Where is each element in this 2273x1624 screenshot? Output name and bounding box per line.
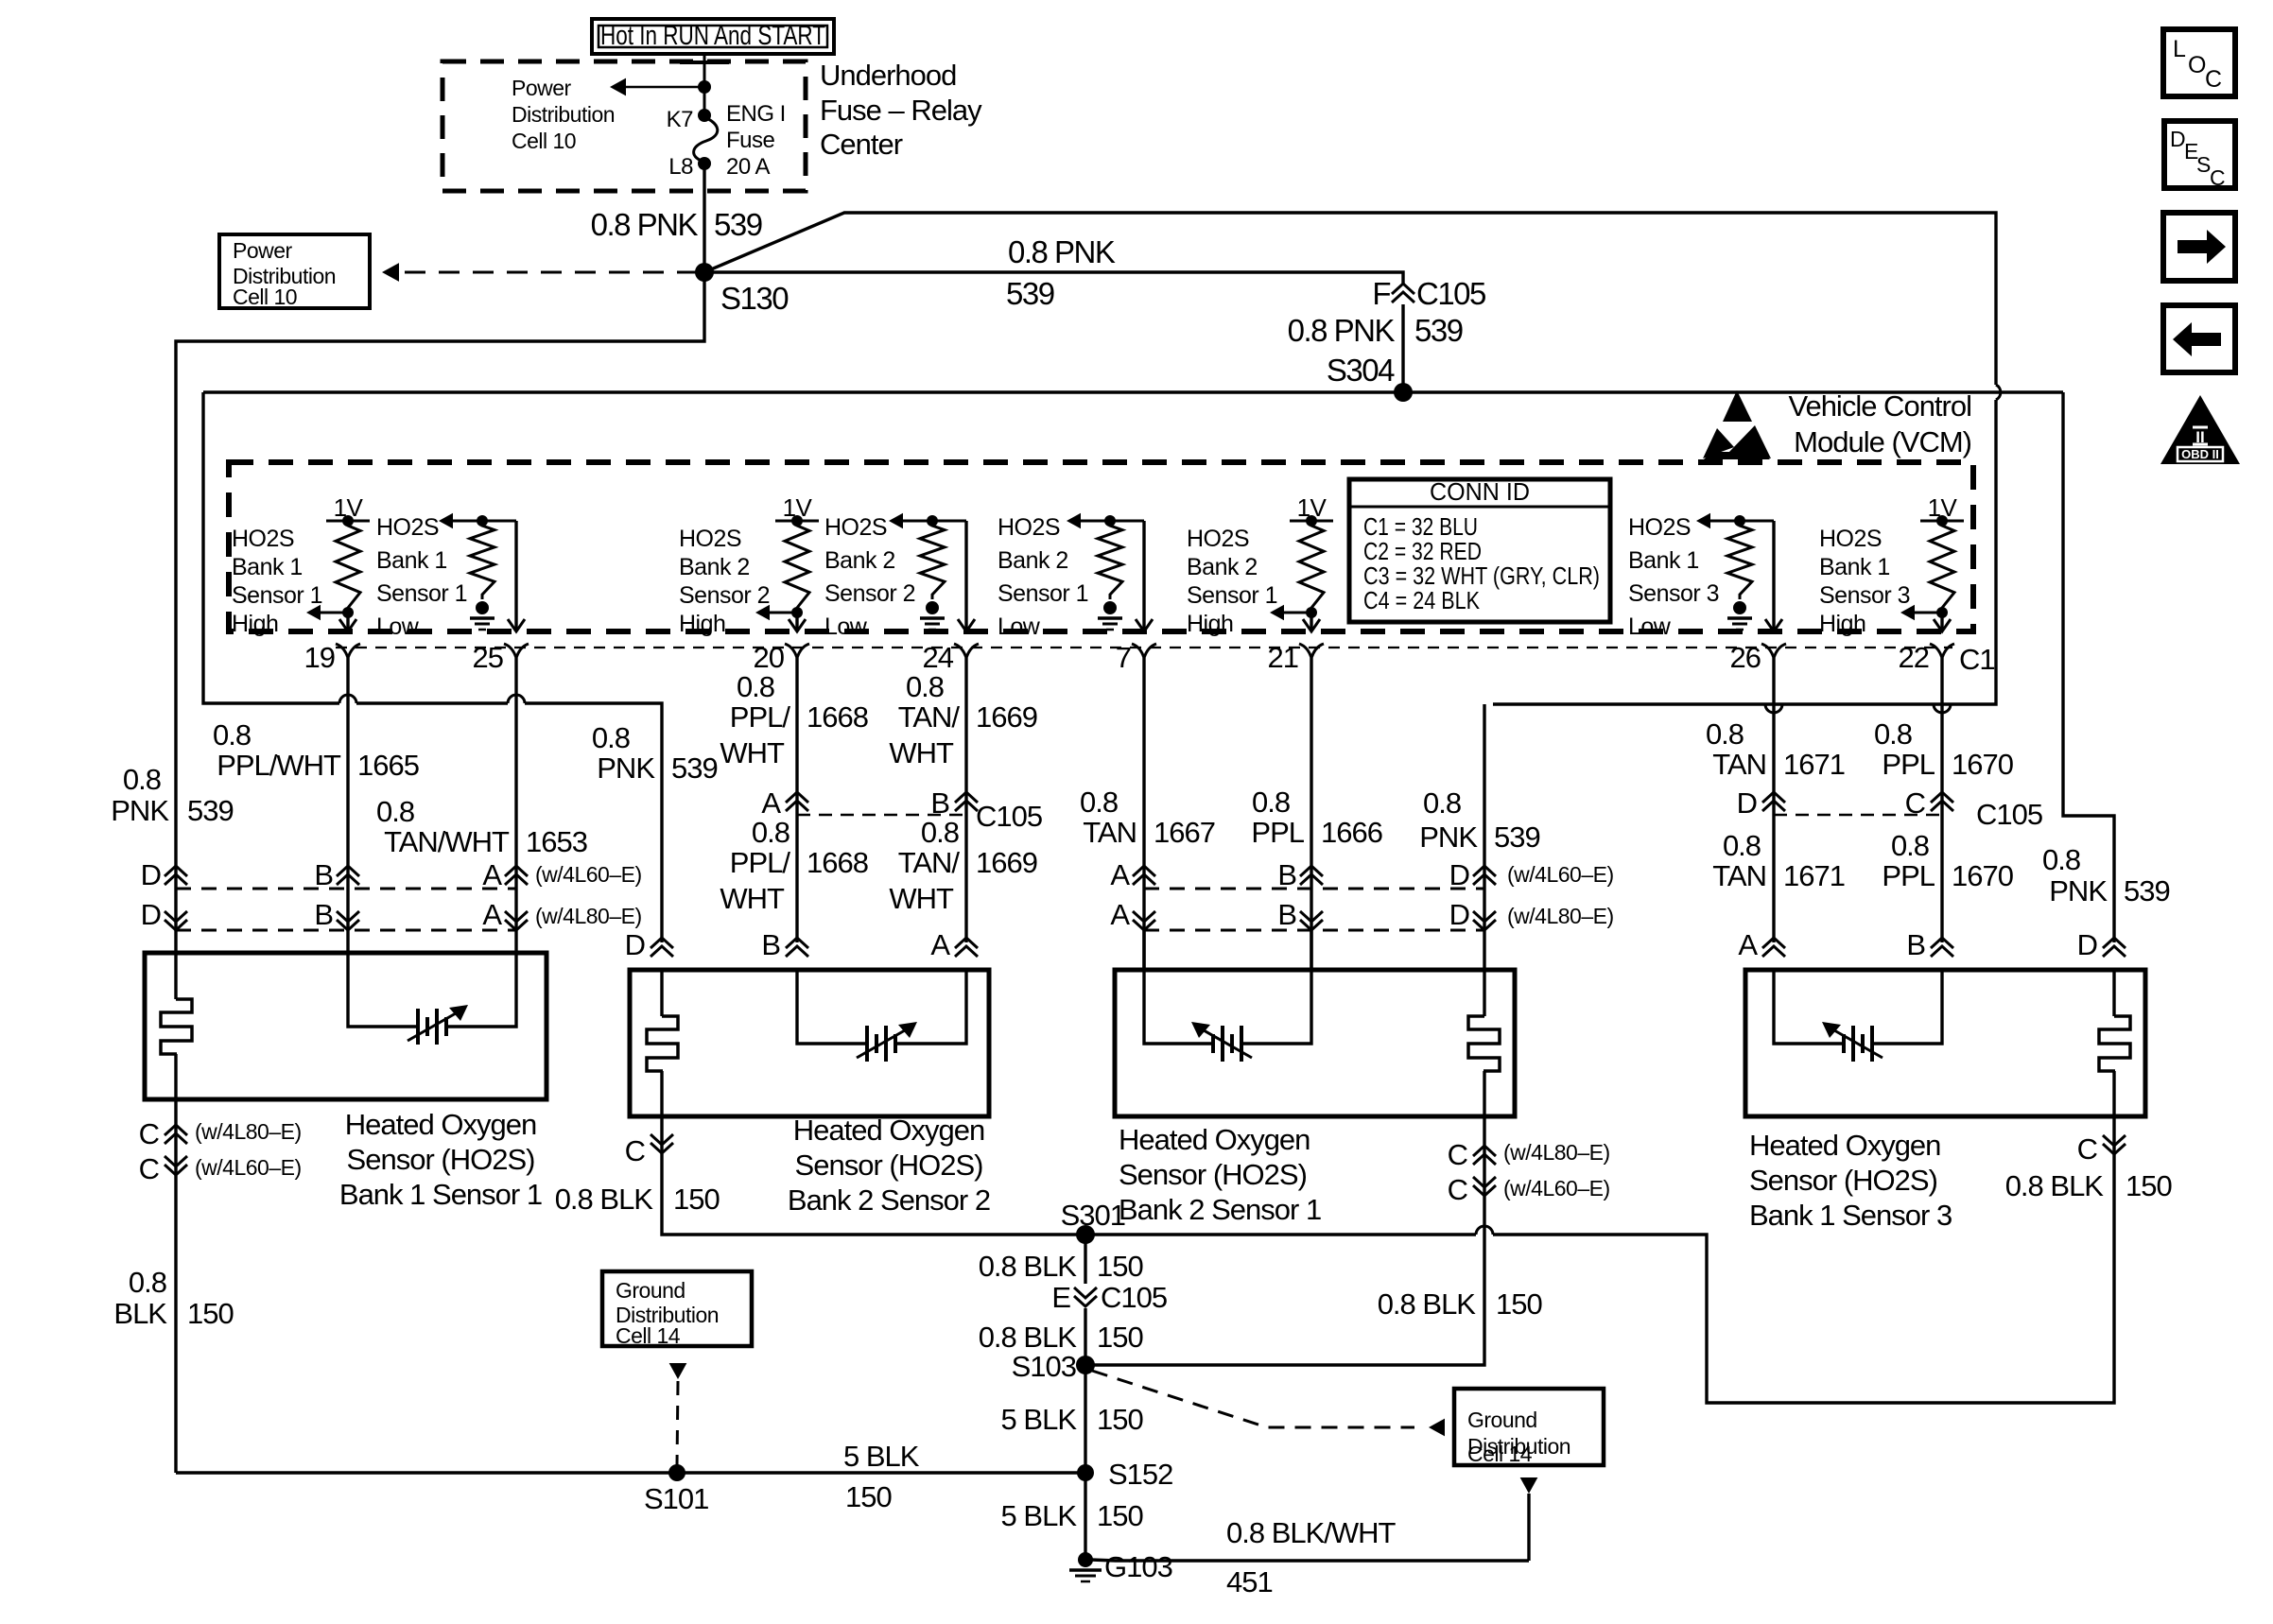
wire: pin7 to HO2S bank2 sensor1 A (0.8 TAN 1667) bbox=[1142, 658, 1145, 970]
node S152 bbox=[1077, 1464, 1094, 1481]
node S101 bbox=[668, 1464, 685, 1481]
svg-text:Bank 1: Bank 1 bbox=[1628, 547, 1699, 574]
heated oxygen sensor HO2S bank2 sensor2 bbox=[630, 970, 989, 1116]
svg-text:Bank 2: Bank 2 bbox=[679, 554, 750, 580]
svg-text:PPL: PPL bbox=[1251, 816, 1304, 849]
svg-text:B: B bbox=[1906, 928, 1925, 961]
node S130 bbox=[695, 263, 714, 282]
connector chevrons at HO2S bank1 sensor3 box bbox=[1762, 938, 1785, 957]
svg-text:C: C bbox=[2205, 66, 2222, 93]
svg-text:Bank 1: Bank 1 bbox=[232, 554, 303, 580]
inline connector row w/4L80-E (bank2 sensor1) bbox=[1144, 929, 1484, 932]
svg-text:150: 150 bbox=[1097, 1321, 1143, 1354]
svg-text:Heated Oxygen: Heated Oxygen bbox=[1749, 1129, 1940, 1162]
svg-text:150: 150 bbox=[1496, 1287, 1542, 1321]
svg-text:PPL/WHT: PPL/WHT bbox=[217, 749, 341, 782]
svg-text:TAN: TAN bbox=[1083, 816, 1136, 849]
svg-text:Heated Oxygen: Heated Oxygen bbox=[1119, 1123, 1310, 1156]
wire: bank1 sensor1 C to S101 (0.8 BLK 150) bbox=[176, 1471, 1085, 1474]
ground distribution cell 14 box (right) bbox=[1454, 1389, 1604, 1465]
svg-text:B: B bbox=[1277, 858, 1296, 891]
svg-text:150: 150 bbox=[187, 1297, 234, 1330]
svg-text:High: High bbox=[1819, 611, 1865, 637]
svg-text:0.8: 0.8 bbox=[1423, 786, 1461, 820]
svg-text:CONN ID: CONN ID bbox=[1430, 477, 1530, 506]
svg-text:A: A bbox=[1738, 928, 1758, 961]
svg-text:150: 150 bbox=[2126, 1169, 2172, 1202]
wire: bus right arm down to HO2S bank1 sensor3 D (0.8 PNK 539) bbox=[2063, 392, 2114, 942]
dashed wire: S103 to ground distribution cell 14 bbox=[1092, 1371, 1414, 1427]
sidebar back arrow button bbox=[2163, 305, 2235, 372]
wire: S152 to G103 (5 BLK 150) bbox=[1084, 1473, 1086, 1560]
svg-text:Low: Low bbox=[1628, 613, 1672, 640]
svg-text:0.8: 0.8 bbox=[737, 670, 774, 703]
wire: S103 to S152 (5 BLK 150) bbox=[1084, 1365, 1086, 1473]
svg-text:1670: 1670 bbox=[1952, 859, 2014, 892]
svg-text:Distribution: Distribution bbox=[512, 102, 615, 127]
wire: bus left arm down to HO2S bank2 sensor2 D (0.8 PNK 539) bbox=[203, 392, 662, 942]
svg-text:0.8: 0.8 bbox=[1874, 717, 1912, 751]
svg-text:20 A: 20 A bbox=[726, 154, 771, 180]
svg-text:Underhood: Underhood bbox=[820, 59, 956, 92]
svg-text:S101: S101 bbox=[644, 1482, 708, 1515]
svg-text:WHT: WHT bbox=[720, 736, 785, 769]
svg-text:High: High bbox=[1187, 611, 1233, 637]
svg-text:(w/4L60–E): (w/4L60–E) bbox=[535, 862, 642, 887]
svg-text:1669: 1669 bbox=[976, 846, 1037, 879]
inline connector row w/4L60-E (bank1 sensor1) bbox=[176, 888, 516, 890]
svg-text:C: C bbox=[2210, 165, 2226, 190]
VCM pin 25: HO2S bank1 sensor1 low (resistor to ground) bbox=[452, 520, 516, 523]
svg-text:High: High bbox=[679, 611, 725, 637]
ground G103 bbox=[1078, 1552, 1093, 1567]
svg-text:Sensor 2: Sensor 2 bbox=[679, 582, 770, 609]
svg-text:539: 539 bbox=[2124, 874, 2170, 907]
svg-text:0.8: 0.8 bbox=[1252, 786, 1290, 819]
svg-text:S304: S304 bbox=[1327, 353, 1395, 388]
svg-text:1666: 1666 bbox=[1321, 816, 1382, 849]
svg-text:Fuse: Fuse bbox=[726, 128, 775, 153]
svg-text:0.8 BLK: 0.8 BLK bbox=[555, 1183, 654, 1216]
svg-text:20: 20 bbox=[754, 641, 785, 674]
svg-text:TAN: TAN bbox=[1712, 748, 1766, 781]
svg-text:A: A bbox=[930, 928, 950, 961]
svg-text:5 BLK: 5 BLK bbox=[843, 1440, 920, 1473]
wire: pin to HO2S bank1 sensor3 (0.8 TAN 1671) bbox=[1772, 658, 1775, 942]
svg-text:Bank 2 Sensor 2: Bank 2 Sensor 2 bbox=[788, 1183, 990, 1217]
VCM pin 7: HO2S bank2 sensor1 low (resistor to ground) bbox=[1080, 520, 1144, 523]
svg-text:(w/4L60–E): (w/4L60–E) bbox=[1507, 862, 1614, 887]
svg-text:5 BLK: 5 BLK bbox=[1001, 1499, 1078, 1532]
heated oxygen sensor HO2S bank1 sensor3 bbox=[1745, 970, 2145, 1116]
svg-text:Bank 2 Sensor 1: Bank 2 Sensor 1 bbox=[1119, 1193, 1321, 1226]
svg-text:0.8: 0.8 bbox=[1891, 829, 1929, 862]
svg-text:150: 150 bbox=[845, 1480, 892, 1513]
CONN ID table bbox=[1349, 479, 1610, 622]
svg-text:C: C bbox=[139, 1117, 160, 1150]
fuse K7/L8 ENG I Fuse 20 A bbox=[698, 109, 711, 122]
svg-text:E: E bbox=[1051, 1281, 1070, 1314]
svg-text:1671: 1671 bbox=[1783, 748, 1845, 781]
svg-text:1668: 1668 bbox=[807, 846, 868, 879]
VCM pin 26: HO2S bank1 sensor3 low (resistor to ground) bbox=[1709, 520, 1774, 523]
svg-text:Bank 1 Sensor 1: Bank 1 Sensor 1 bbox=[339, 1178, 542, 1211]
svg-text:HO2S: HO2S bbox=[998, 514, 1060, 541]
svg-text:0.8: 0.8 bbox=[1706, 717, 1744, 751]
svg-text:150: 150 bbox=[673, 1183, 720, 1216]
ground distribution cell 14 box (left) bbox=[602, 1271, 752, 1346]
svg-text:22: 22 bbox=[1899, 641, 1929, 674]
svg-text:WHT: WHT bbox=[889, 882, 954, 915]
svg-text:Sensor 1: Sensor 1 bbox=[998, 580, 1088, 607]
svg-text:HO2S: HO2S bbox=[232, 526, 294, 552]
svg-text:Low: Low bbox=[998, 613, 1041, 640]
svg-text:Fuse – Relay: Fuse – Relay bbox=[820, 94, 982, 127]
svg-text:O: O bbox=[2188, 52, 2206, 78]
svg-text:B: B bbox=[314, 898, 333, 931]
svg-text:PPL: PPL bbox=[1882, 859, 1935, 892]
wire: S304 power bus bbox=[203, 390, 2063, 393]
sidebar LOC button bbox=[2163, 29, 2235, 96]
svg-text:Low: Low bbox=[376, 613, 420, 640]
svg-text:C105: C105 bbox=[976, 800, 1042, 833]
svg-text:PNK: PNK bbox=[597, 752, 655, 785]
wire: hot feed into fuse bbox=[703, 54, 706, 115]
wire: S130 up-right to HO2S bank2 sensor1 feed (0.8 PNK 539) bbox=[704, 213, 1996, 704]
svg-text:F: F bbox=[1372, 276, 1390, 311]
svg-text:B: B bbox=[1277, 898, 1296, 931]
svg-text:Center: Center bbox=[820, 128, 903, 161]
svg-text:Sensor (HO2S): Sensor (HO2S) bbox=[1749, 1164, 1937, 1197]
dashed wire: S130 to power distribution cell 10 bbox=[405, 271, 700, 274]
svg-text:Bank 2: Bank 2 bbox=[998, 547, 1068, 574]
svg-text:19: 19 bbox=[304, 641, 335, 674]
svg-text:K7: K7 bbox=[667, 107, 694, 132]
wire: bank2 sensor2 C to ground bus (0.8 BLK 150) bbox=[662, 1116, 1085, 1235]
wire: bank2 sensor1 D row to box bbox=[1144, 704, 1484, 970]
node S103 bbox=[1076, 1356, 1095, 1374]
wire: G103 to ground distribution (0.8 BLK/WHT 451) bbox=[1091, 1560, 1529, 1561]
svg-text:Heated Oxygen: Heated Oxygen bbox=[793, 1114, 984, 1147]
svg-text:C105: C105 bbox=[1976, 798, 2042, 831]
wire: pin21 to HO2S bank2 sensor1 B (0.8 PPL 1666) bbox=[1310, 658, 1312, 970]
svg-text:539: 539 bbox=[1006, 276, 1054, 311]
wire: S130 to connector F (0.8 PNK 539) bbox=[704, 272, 1403, 284]
svg-text:HO2S: HO2S bbox=[679, 526, 741, 552]
svg-text:HO2S: HO2S bbox=[1187, 526, 1249, 552]
connector C1 line (fine dashed) bbox=[336, 647, 1952, 648]
svg-text:Ground: Ground bbox=[1467, 1408, 1537, 1432]
svg-text:C: C bbox=[1448, 1138, 1468, 1171]
svg-text:High: High bbox=[232, 611, 278, 637]
svg-text:TAN/: TAN/ bbox=[898, 700, 961, 734]
svg-text:0.8: 0.8 bbox=[1080, 786, 1118, 819]
svg-text:Cell 10: Cell 10 bbox=[233, 285, 297, 309]
node S301 bbox=[1076, 1225, 1095, 1244]
svg-text:0.8: 0.8 bbox=[906, 670, 944, 703]
svg-text:0.8: 0.8 bbox=[129, 1266, 166, 1299]
svg-text:(w/4L80–E): (w/4L80–E) bbox=[1503, 1140, 1610, 1165]
svg-text:0.8: 0.8 bbox=[376, 795, 414, 828]
wire: pin to HO2S bank1 sensor3 (0.8 PPL 1670) bbox=[1940, 658, 1943, 942]
svg-text:HO2S: HO2S bbox=[376, 514, 439, 541]
OBD II symbol bbox=[2160, 395, 2240, 464]
svg-text:HO2S: HO2S bbox=[1819, 526, 1882, 552]
svg-text:A: A bbox=[761, 786, 781, 820]
svg-text:C: C bbox=[139, 1152, 160, 1185]
svg-text:S103: S103 bbox=[1012, 1350, 1076, 1383]
ESD sensitivity symbol bbox=[1723, 390, 1752, 422]
wire: bank1 sensor3 C to ground bus (0.8 BLK 150) bbox=[1085, 1116, 2114, 1403]
svg-text:ENG I: ENG I bbox=[726, 101, 786, 127]
svg-text:D: D bbox=[1449, 858, 1469, 891]
svg-text:Sensor 1: Sensor 1 bbox=[232, 582, 322, 609]
svg-text:Sensor 1: Sensor 1 bbox=[1187, 582, 1277, 609]
connector F of C105 bbox=[1392, 284, 1414, 302]
arrow: feed to Power Distribution bbox=[625, 86, 704, 89]
svg-text:Sensor 3: Sensor 3 bbox=[1819, 582, 1910, 609]
svg-text:539: 539 bbox=[1414, 313, 1463, 348]
svg-text:L8: L8 bbox=[668, 154, 693, 180]
svg-text:(w/4L80–E): (w/4L80–E) bbox=[195, 1119, 302, 1144]
svg-text:Sensor (HO2S): Sensor (HO2S) bbox=[347, 1143, 535, 1176]
svg-text:0.8: 0.8 bbox=[1723, 829, 1761, 862]
svg-text:S130: S130 bbox=[720, 281, 789, 316]
sidebar forward arrow button bbox=[2163, 213, 2235, 281]
connector C w/4L80-E and w/4L60-E below bank1 sensor1 bbox=[174, 1099, 177, 1473]
svg-text:0.8: 0.8 bbox=[752, 816, 789, 849]
svg-text:539: 539 bbox=[714, 207, 762, 242]
svg-text:D: D bbox=[141, 858, 161, 891]
wire: pin to HO2S bank2 sensor2 (0.8 TAN/WHT 1669) bbox=[964, 658, 967, 942]
svg-text:D: D bbox=[141, 898, 161, 931]
svg-text:TAN/: TAN/ bbox=[898, 846, 961, 879]
svg-text:C105: C105 bbox=[1416, 276, 1485, 311]
svg-text:Vehicle Control: Vehicle Control bbox=[1788, 389, 1971, 423]
svg-text:Sensor (HO2S): Sensor (HO2S) bbox=[795, 1149, 983, 1182]
svg-text:Cell 10: Cell 10 bbox=[512, 129, 576, 153]
svg-text:1653: 1653 bbox=[526, 825, 587, 858]
svg-text:PPL/: PPL/ bbox=[730, 846, 791, 879]
wire: S301 to C105 E (0.8 BLK 150) bbox=[1084, 1235, 1086, 1284]
svg-text:Bank 1: Bank 1 bbox=[376, 547, 447, 574]
power distribution cell 10 box bbox=[219, 234, 370, 308]
svg-text:451: 451 bbox=[1226, 1565, 1273, 1598]
svg-text:1670: 1670 bbox=[1952, 748, 2014, 781]
svg-text:539: 539 bbox=[187, 794, 234, 827]
svg-text:PNK: PNK bbox=[111, 794, 169, 827]
connector chevrons at HO2S bank2 sensor2 box bbox=[651, 938, 673, 957]
svg-text:Sensor 3: Sensor 3 bbox=[1628, 580, 1719, 607]
wire: pin to HO2S bank2 sensor2 (0.8 PPL/WHT 1668) bbox=[795, 658, 798, 942]
svg-text:S152: S152 bbox=[1108, 1458, 1172, 1491]
svg-text:25: 25 bbox=[473, 641, 503, 674]
svg-text:A: A bbox=[482, 858, 502, 891]
svg-text:150: 150 bbox=[1097, 1403, 1143, 1436]
svg-text:Bank 1: Bank 1 bbox=[1819, 554, 1890, 580]
svg-text:G103: G103 bbox=[1104, 1550, 1172, 1583]
connector C105 row (bank1 sensor3 wires) bbox=[1774, 814, 1942, 817]
svg-text:OBD II: OBD II bbox=[2181, 447, 2219, 461]
svg-text:Heated Oxygen: Heated Oxygen bbox=[345, 1108, 536, 1141]
connector E of C105 bbox=[1074, 1287, 1097, 1306]
sidebar DESC button bbox=[2164, 121, 2235, 188]
svg-text:24: 24 bbox=[923, 641, 954, 674]
svg-text:PPL: PPL bbox=[1882, 748, 1935, 781]
svg-text:BLK: BLK bbox=[113, 1297, 167, 1330]
svg-text:Cell 14: Cell 14 bbox=[616, 1323, 681, 1348]
svg-text:D: D bbox=[625, 928, 645, 961]
svg-text:(w/4L80–E): (w/4L80–E) bbox=[1507, 904, 1614, 928]
svg-text:150: 150 bbox=[1097, 1250, 1143, 1283]
wire: bank2 sensor1 C to S103 (0.8 BLK 150) bbox=[1085, 1116, 1484, 1365]
svg-text:C: C bbox=[2077, 1132, 2098, 1166]
svg-text:A: A bbox=[1110, 858, 1130, 891]
svg-text:D: D bbox=[1737, 786, 1757, 820]
svg-text:(w/4L60–E): (w/4L60–E) bbox=[1503, 1176, 1610, 1201]
svg-text:539: 539 bbox=[671, 752, 718, 785]
svg-text:Cell 14: Cell 14 bbox=[1467, 1442, 1533, 1466]
svg-text:A: A bbox=[1110, 898, 1130, 931]
inline connector row w/4L60-E (bank2 sensor1) bbox=[1144, 888, 1484, 890]
svg-text:TAN: TAN bbox=[1712, 859, 1766, 892]
svg-text:Ground: Ground bbox=[616, 1278, 685, 1303]
wire: ground distribution to 451 wire bbox=[1520, 1477, 1538, 1494]
svg-text:(w/4L80–E): (w/4L80–E) bbox=[535, 904, 642, 928]
wire: S130 to HO2S bank1 sensor1 D (0.8 PNK 539 left drop) bbox=[176, 272, 704, 953]
svg-text:C1: C1 bbox=[1959, 643, 1995, 676]
svg-text:C: C bbox=[1448, 1173, 1468, 1206]
svg-text:HO2S: HO2S bbox=[1628, 514, 1691, 541]
svg-text:1671: 1671 bbox=[1783, 859, 1845, 892]
svg-text:S301: S301 bbox=[1061, 1199, 1125, 1232]
svg-text:C: C bbox=[625, 1134, 646, 1167]
svg-text:C105: C105 bbox=[1101, 1281, 1167, 1314]
heated oxygen sensor HO2S bank1 sensor1 bbox=[145, 953, 547, 1099]
svg-text:B: B bbox=[314, 858, 333, 891]
wire: pin19 to HO2S bank1 sensor1 B (0.8 PPL/WHT 1665) bbox=[346, 658, 349, 953]
svg-text:Sensor 1: Sensor 1 bbox=[376, 580, 467, 607]
svg-text:Sensor 2: Sensor 2 bbox=[824, 580, 915, 607]
dashed wire: ground distribution cell 14 to S101 bbox=[669, 1363, 687, 1379]
svg-text:0.8 BLK: 0.8 BLK bbox=[2005, 1169, 2105, 1202]
svg-text:26: 26 bbox=[1730, 641, 1761, 674]
svg-text:HO2S: HO2S bbox=[824, 514, 887, 541]
svg-text:Bank 1 Sensor 3: Bank 1 Sensor 3 bbox=[1749, 1199, 1952, 1232]
svg-text:C4 = 24 BLK: C4 = 24 BLK bbox=[1363, 586, 1481, 614]
svg-text:L: L bbox=[2173, 36, 2186, 62]
svg-text:1665: 1665 bbox=[357, 749, 419, 782]
svg-text:0.8 PNK: 0.8 PNK bbox=[1288, 313, 1396, 348]
underhood fuse-relay center dashed box bbox=[442, 61, 806, 191]
svg-text:0.8: 0.8 bbox=[921, 816, 959, 849]
svg-text:WHT: WHT bbox=[720, 882, 785, 915]
svg-text:Module (VCM): Module (VCM) bbox=[1794, 425, 1971, 458]
svg-text:Hot In RUN And START: Hot In RUN And START bbox=[600, 21, 825, 51]
wire: pin25 to HO2S bank1 sensor1 A (0.8 TAN/WHT 1653) bbox=[514, 658, 517, 953]
svg-text:(w/4L60–E): (w/4L60–E) bbox=[195, 1155, 302, 1180]
svg-text:0.8 BLK: 0.8 BLK bbox=[979, 1250, 1078, 1283]
wire: E to S103 (0.8 BLK 150) bbox=[1084, 1308, 1086, 1365]
svg-text:A: A bbox=[482, 898, 502, 931]
svg-text:0.8: 0.8 bbox=[123, 763, 161, 796]
svg-text:Bank 2: Bank 2 bbox=[1187, 554, 1258, 580]
node S304 bbox=[1394, 383, 1413, 402]
svg-text:Bank 2: Bank 2 bbox=[824, 547, 895, 574]
svg-text:7: 7 bbox=[1116, 641, 1131, 674]
connector C105 row (bank2 sensor2 wires) bbox=[797, 814, 966, 817]
svg-text:Power: Power bbox=[512, 76, 572, 100]
svg-text:539: 539 bbox=[1494, 821, 1540, 854]
heated oxygen sensor HO2S bank2 sensor1 bbox=[1115, 970, 1515, 1116]
svg-text:1668: 1668 bbox=[807, 700, 868, 734]
svg-text:0.8: 0.8 bbox=[213, 718, 251, 752]
svg-text:TAN/WHT: TAN/WHT bbox=[384, 825, 510, 858]
svg-text:PNK: PNK bbox=[2049, 874, 2108, 907]
svg-text:WHT: WHT bbox=[889, 736, 954, 769]
wire: fuse output 0.8 PNK 539 to S130 bbox=[703, 164, 705, 272]
wire: F to S304 0.8 PNK 539 bbox=[1401, 304, 1404, 392]
svg-text:B: B bbox=[761, 928, 780, 961]
svg-text:Low: Low bbox=[824, 613, 868, 640]
svg-text:0.8: 0.8 bbox=[592, 721, 630, 754]
svg-text:0.8: 0.8 bbox=[2042, 843, 2080, 876]
svg-text:0.8 PNK: 0.8 PNK bbox=[1008, 234, 1116, 269]
svg-text:0.8 BLK: 0.8 BLK bbox=[979, 1321, 1078, 1354]
svg-text:PPL/: PPL/ bbox=[730, 700, 791, 734]
svg-text:21: 21 bbox=[1268, 641, 1298, 674]
svg-text:0.8 BLK: 0.8 BLK bbox=[1378, 1287, 1477, 1321]
inline connector row w/4L80-E (bank1 sensor1) bbox=[176, 929, 516, 932]
svg-text:0.8 BLK/WHT: 0.8 BLK/WHT bbox=[1226, 1516, 1397, 1549]
svg-text:1669: 1669 bbox=[976, 700, 1037, 734]
svg-text:D: D bbox=[1449, 898, 1469, 931]
svg-text:D: D bbox=[2077, 928, 2097, 961]
VCM pin 24: HO2S bank2 sensor2 low (resistor to ground) bbox=[902, 520, 966, 523]
svg-text:Power: Power bbox=[233, 238, 293, 263]
vehicle control module (VCM) dashed box bbox=[229, 462, 1973, 631]
svg-text:5 BLK: 5 BLK bbox=[1001, 1403, 1078, 1436]
svg-text:Sensor (HO2S): Sensor (HO2S) bbox=[1119, 1158, 1307, 1191]
svg-text:0.8 PNK: 0.8 PNK bbox=[591, 207, 699, 242]
svg-text:150: 150 bbox=[1097, 1499, 1143, 1532]
svg-text:PNK: PNK bbox=[1419, 821, 1478, 854]
power feed box: Hot In RUN And START bbox=[592, 19, 834, 54]
svg-text:1667: 1667 bbox=[1154, 816, 1215, 849]
